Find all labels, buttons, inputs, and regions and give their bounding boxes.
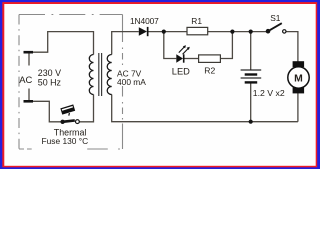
svg-text:1.2 V x2: 1.2 V x2 [253, 88, 285, 98]
svg-text:LED: LED [172, 66, 190, 76]
svg-text:1N4007: 1N4007 [130, 16, 159, 26]
svg-text:50 Hz: 50 Hz [38, 77, 61, 87]
svg-text:R1: R1 [191, 16, 202, 26]
svg-text:AC: AC [19, 74, 32, 85]
svg-text:Fuse 130 °C: Fuse 130 °C [42, 136, 89, 146]
svg-text:R2: R2 [204, 65, 215, 75]
svg-text:S1: S1 [270, 13, 281, 23]
svg-text:M: M [294, 73, 303, 84]
svg-text:230 V: 230 V [38, 68, 61, 78]
svg-text:400 mA: 400 mA [117, 77, 146, 87]
